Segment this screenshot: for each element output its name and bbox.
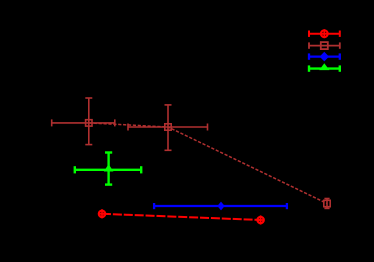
legend row 1: red sample <box>309 29 340 38</box>
series DR: dark-red squares with xy error bars <box>52 98 330 208</box>
node RD-P1 plus <box>98 209 106 218</box>
node DR-P2 square marker <box>165 124 171 130</box>
legend row 3: blue sample <box>309 52 340 62</box>
node RD-P1 circle marker <box>99 211 105 217</box>
series RD: red circles with dashed line <box>98 209 264 224</box>
node GR-P1 triangle marker <box>104 164 114 171</box>
node DR-P2 x error bar <box>128 124 208 131</box>
series GR: green triangle with xy error bars <box>75 153 141 185</box>
node DR-P2 y error bar <box>165 105 172 150</box>
node RD-P2 plus <box>257 215 265 224</box>
node BL-P1 diamond marker <box>217 202 224 211</box>
node DR-P1 square marker <box>86 120 92 126</box>
node DR-P1 x error bar <box>52 119 115 126</box>
series BL: blue diamond with x error bar <box>154 202 287 211</box>
node DR-P1 y error bar <box>85 98 92 145</box>
node DR-P3 y error bar <box>324 199 329 209</box>
node GR-P1 y error bar <box>105 153 112 185</box>
wire: DR dashed connecting line P1-P2-P3 <box>89 123 327 204</box>
legend row 2: dark-red sample <box>309 42 340 49</box>
legend row 4: green sample <box>309 63 340 72</box>
legend key top right <box>309 29 340 72</box>
node RD-P2 circle marker <box>257 217 263 223</box>
wire: RD dashed connecting line P1-P2 <box>102 214 261 220</box>
node GR-P1 x error bar <box>75 166 141 173</box>
node BL-P1 x error bar <box>154 203 287 209</box>
node DR-P3 square marker <box>324 200 330 206</box>
